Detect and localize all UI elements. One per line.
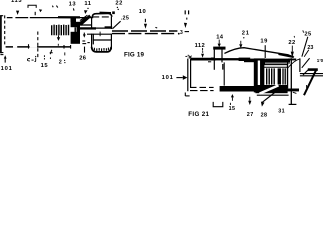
dashed hidden line mid — [37, 32, 39, 60]
junction thick blob — [80, 27, 96, 29]
leader dash 12 — [64, 52, 66, 55]
22 leader end square — [112, 11, 115, 14]
rod end tick — [185, 31, 189, 33]
leader dash 10 — [144, 19, 146, 22]
svg-text:26: 26 — [79, 56, 87, 62]
grid bars group 2 — [283, 68, 285, 84]
svg-text:27: 27 — [247, 112, 254, 118]
small bracket part above shank — [28, 5, 36, 8]
long vertical foot — [289, 103, 297, 105]
spring hatch bars — [52, 25, 69, 36]
svg-text:31: 31 — [278, 109, 285, 115]
small bracket marks lower left of cylinder — [82, 40, 85, 42]
svg-text:14: 14 — [216, 35, 224, 41]
shank top edge thick part — [58, 16, 80, 18]
bottom long diagonal — [262, 90, 278, 103]
bottom edge end tick — [70, 45, 72, 49]
right inner vertical — [287, 62, 289, 88]
svg-text:1’0: 1’0 — [317, 58, 323, 63]
cylinder mid shelf — [92, 27, 112, 29]
svg-text:11: 11 — [84, 1, 91, 7]
striped ledge lines — [190, 86, 214, 88]
double horizontal lines right — [300, 73, 323, 75]
leader 23 — [304, 50, 309, 57]
leader dash b — [56, 6, 57, 8]
svg-text:15: 15 — [229, 106, 236, 112]
leader arrow 11 — [84, 10, 88, 14]
mark 4 — [50, 50, 53, 54]
hatch wedge diagonal 2 — [80, 15, 87, 20]
small dash near foot — [293, 92, 297, 93]
seven glyph bar — [308, 68, 318, 71]
leader 21 — [243, 37, 244, 38]
rod dashed line bottom — [112, 33, 177, 35]
center mark cross — [87, 33, 111, 35]
svg-text:19: 19 — [260, 38, 268, 44]
label 11 upper right — [185, 10, 188, 14]
inner bore line vertical — [223, 62, 225, 85]
piston bottom line — [93, 39, 111, 41]
leader arrow for 113 — [16, 11, 19, 15]
post cap — [213, 47, 225, 50]
top line left of post — [190, 57, 215, 59]
post left edge — [213, 49, 215, 70]
arrow up 101 — [4, 55, 7, 58]
cup hatch ticks — [94, 48, 108, 51]
bottom step line — [257, 94, 289, 96]
arrow 27 down — [249, 97, 251, 101]
svg-text:25: 25 — [304, 31, 312, 37]
piston black column — [254, 58, 265, 92]
top wall band thin — [191, 59, 216, 61]
cylinder bottom cup — [92, 47, 112, 52]
outer right vertical — [299, 58, 301, 72]
down arrow at 84 — [83, 34, 86, 37]
leader dash 15 — [229, 103, 231, 105]
leader dash a — [51, 6, 54, 8]
leader arrow 14 — [218, 40, 220, 44]
grid box outline — [264, 65, 288, 86]
bottom black shapes — [255, 85, 287, 93]
dark block upper — [71, 22, 80, 27]
short diagonal — [303, 69, 309, 75]
svg-text:112: 112 — [195, 43, 206, 49]
right side tick — [306, 85, 308, 88]
leader 25 diagonal — [112, 21, 120, 29]
seven glyph diagonal — [304, 70, 316, 95]
arrow 15 up — [231, 94, 234, 97]
bottom edge cross tick — [63, 45, 65, 49]
cylinder left edge — [91, 17, 93, 49]
svg-text:2: 2 — [59, 59, 62, 65]
svg-text:113: 113 — [11, 0, 22, 4]
arrow 28 — [261, 102, 265, 107]
arrow 101 right — [176, 77, 182, 79]
dark block lower — [71, 32, 80, 44]
cylinder right edge — [110, 17, 112, 50]
dashes above left edge — [187, 55, 189, 58]
leader dash 11r — [186, 18, 188, 20]
leader tick — [34, 12, 36, 15]
top wall heavy right part — [265, 59, 290, 63]
shank left end vertical — [0, 15, 2, 53]
leader 112 — [202, 48, 204, 51]
dark blob at line — [71, 18, 77, 22]
svg-text:15: 15 — [41, 63, 49, 69]
shank bottom edge — [6, 46, 71, 48]
svg-text:101: 101 — [1, 66, 13, 72]
leader dashes 15 — [43, 55, 45, 59]
rod end dot — [178, 33, 180, 35]
leader comma 13 — [72, 8, 75, 10]
svg-text:FIG 21: FIG 21 — [188, 111, 209, 118]
inner vertical below center — [92, 34, 94, 45]
bottom step diagonal — [260, 85, 279, 93]
down arrow mid spring — [57, 37, 60, 41]
svg-text:22: 22 — [115, 1, 122, 7]
grid bars group 1 — [267, 68, 275, 84]
leader dot 11 — [87, 8, 88, 9]
leader 22r — [291, 46, 293, 52]
leader dots 22 — [117, 7, 118, 8]
grid dark blob — [278, 68, 281, 84]
long right vertical — [290, 58, 292, 104]
shank top edge — [7, 17, 93, 19]
leader 26 vertical — [84, 47, 86, 53]
cylinder lid (rounded top) — [92, 14, 112, 18]
top wall thick blob — [239, 58, 251, 61]
cylinder dashed inner top — [92, 16, 111, 18]
body top roof edge — [224, 48, 294, 58]
svg-text:28: 28 — [261, 112, 268, 118]
body left edge double line — [187, 59, 189, 92]
rod dashed line top — [112, 30, 177, 32]
left edge foot — [184, 93, 186, 97]
svg-text:10: 10 — [139, 9, 146, 15]
dark patch junction — [77, 27, 80, 33]
grid box inner top line — [264, 66, 287, 68]
small dash right of arrow — [155, 26, 157, 29]
small x mark left — [185, 55, 187, 57]
top wall heavy left part — [244, 59, 259, 63]
leader arrow small a — [39, 9, 42, 12]
leader 25 diagonal — [302, 37, 308, 57]
top right diagonal — [302, 58, 310, 68]
left end top flange — [0, 15, 3, 17]
leader 19 vertical — [264, 45, 266, 58]
hatch wedge diagonal — [80, 16, 90, 25]
svg-text:.25: .25 — [121, 16, 130, 22]
post right edge — [221, 49, 224, 70]
junction blob right — [105, 26, 113, 28]
svg-text:3: 3 — [180, 30, 183, 36]
svg-text:101: 101 — [162, 75, 174, 81]
bottom bar right — [277, 89, 299, 92]
wire curve — [288, 59, 300, 68]
dashed hidden line left — [4, 15, 6, 46]
left end bottom bracket — [0, 52, 3, 54]
roof right thick part — [279, 54, 294, 57]
scan break gaps — [13, 18, 38, 47]
hatch wedge diagonal 3 — [80, 18, 85, 23]
cylinder lid thick overlay — [100, 12, 112, 14]
svg-text:21: 21 — [242, 30, 250, 36]
long vertical cap — [288, 59, 296, 61]
svg-text:FIG 19: FIG 19 — [124, 51, 144, 58]
bottom edge step tick — [28, 44, 30, 48]
leader dots 12 — [49, 57, 51, 59]
dark block mid bars — [75, 27, 77, 32]
small marks c.j — [27, 58, 30, 61]
svg-text:22: 22 — [288, 40, 295, 46]
column white slit — [258, 61, 260, 90]
svg-text:13: 13 — [69, 2, 77, 8]
bottom wall heavy band — [220, 86, 260, 92]
body step line — [80, 24, 91, 26]
shelf bracket — [213, 102, 223, 107]
top wall band mid — [215, 58, 240, 60]
leader arrow 11r — [184, 23, 187, 28]
leader arrow 10 — [144, 24, 147, 29]
